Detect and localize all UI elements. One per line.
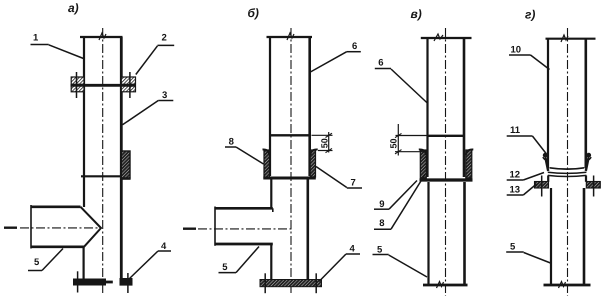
svg-text:б): б)	[248, 6, 259, 20]
svg-text:г): г)	[525, 8, 535, 22]
svg-text:6: 6	[352, 41, 357, 52]
svg-text:13: 13	[510, 185, 521, 196]
svg-text:5: 5	[222, 262, 228, 273]
svg-text:9: 9	[379, 199, 384, 210]
svg-text:8: 8	[229, 137, 234, 148]
svg-text:5: 5	[34, 257, 40, 268]
svg-text:50: 50	[388, 138, 398, 148]
svg-text:3: 3	[162, 90, 167, 101]
svg-text:а): а)	[68, 1, 79, 15]
svg-text:4: 4	[350, 244, 356, 255]
svg-text:1: 1	[33, 33, 39, 44]
svg-text:50: 50	[319, 138, 329, 148]
svg-text:в): в)	[411, 7, 422, 21]
svg-text:11: 11	[510, 125, 521, 136]
svg-text:8: 8	[379, 218, 384, 229]
svg-text:12: 12	[510, 169, 521, 180]
svg-text:5: 5	[377, 245, 383, 256]
svg-text:10: 10	[511, 45, 522, 56]
svg-text:7: 7	[351, 178, 356, 189]
svg-text:5: 5	[510, 242, 516, 253]
svg-text:6: 6	[378, 57, 383, 68]
svg-text:4: 4	[161, 241, 167, 252]
svg-text:2: 2	[162, 33, 167, 44]
